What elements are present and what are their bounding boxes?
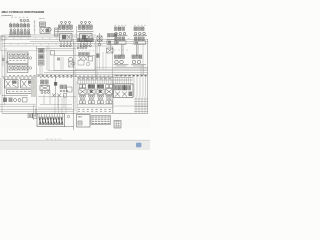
svg-text:(2301001-): (2301001-) xyxy=(2,15,13,17)
svg-text:TANK: TANK xyxy=(78,116,83,119)
svg-text:300LC-7 HYDRAULIC CIRCUIT DIAG: 300LC-7 HYDRAULIC CIRCUIT DIAGRAM xyxy=(2,10,45,14)
svg-text:NOTE: NOTE xyxy=(39,18,45,20)
